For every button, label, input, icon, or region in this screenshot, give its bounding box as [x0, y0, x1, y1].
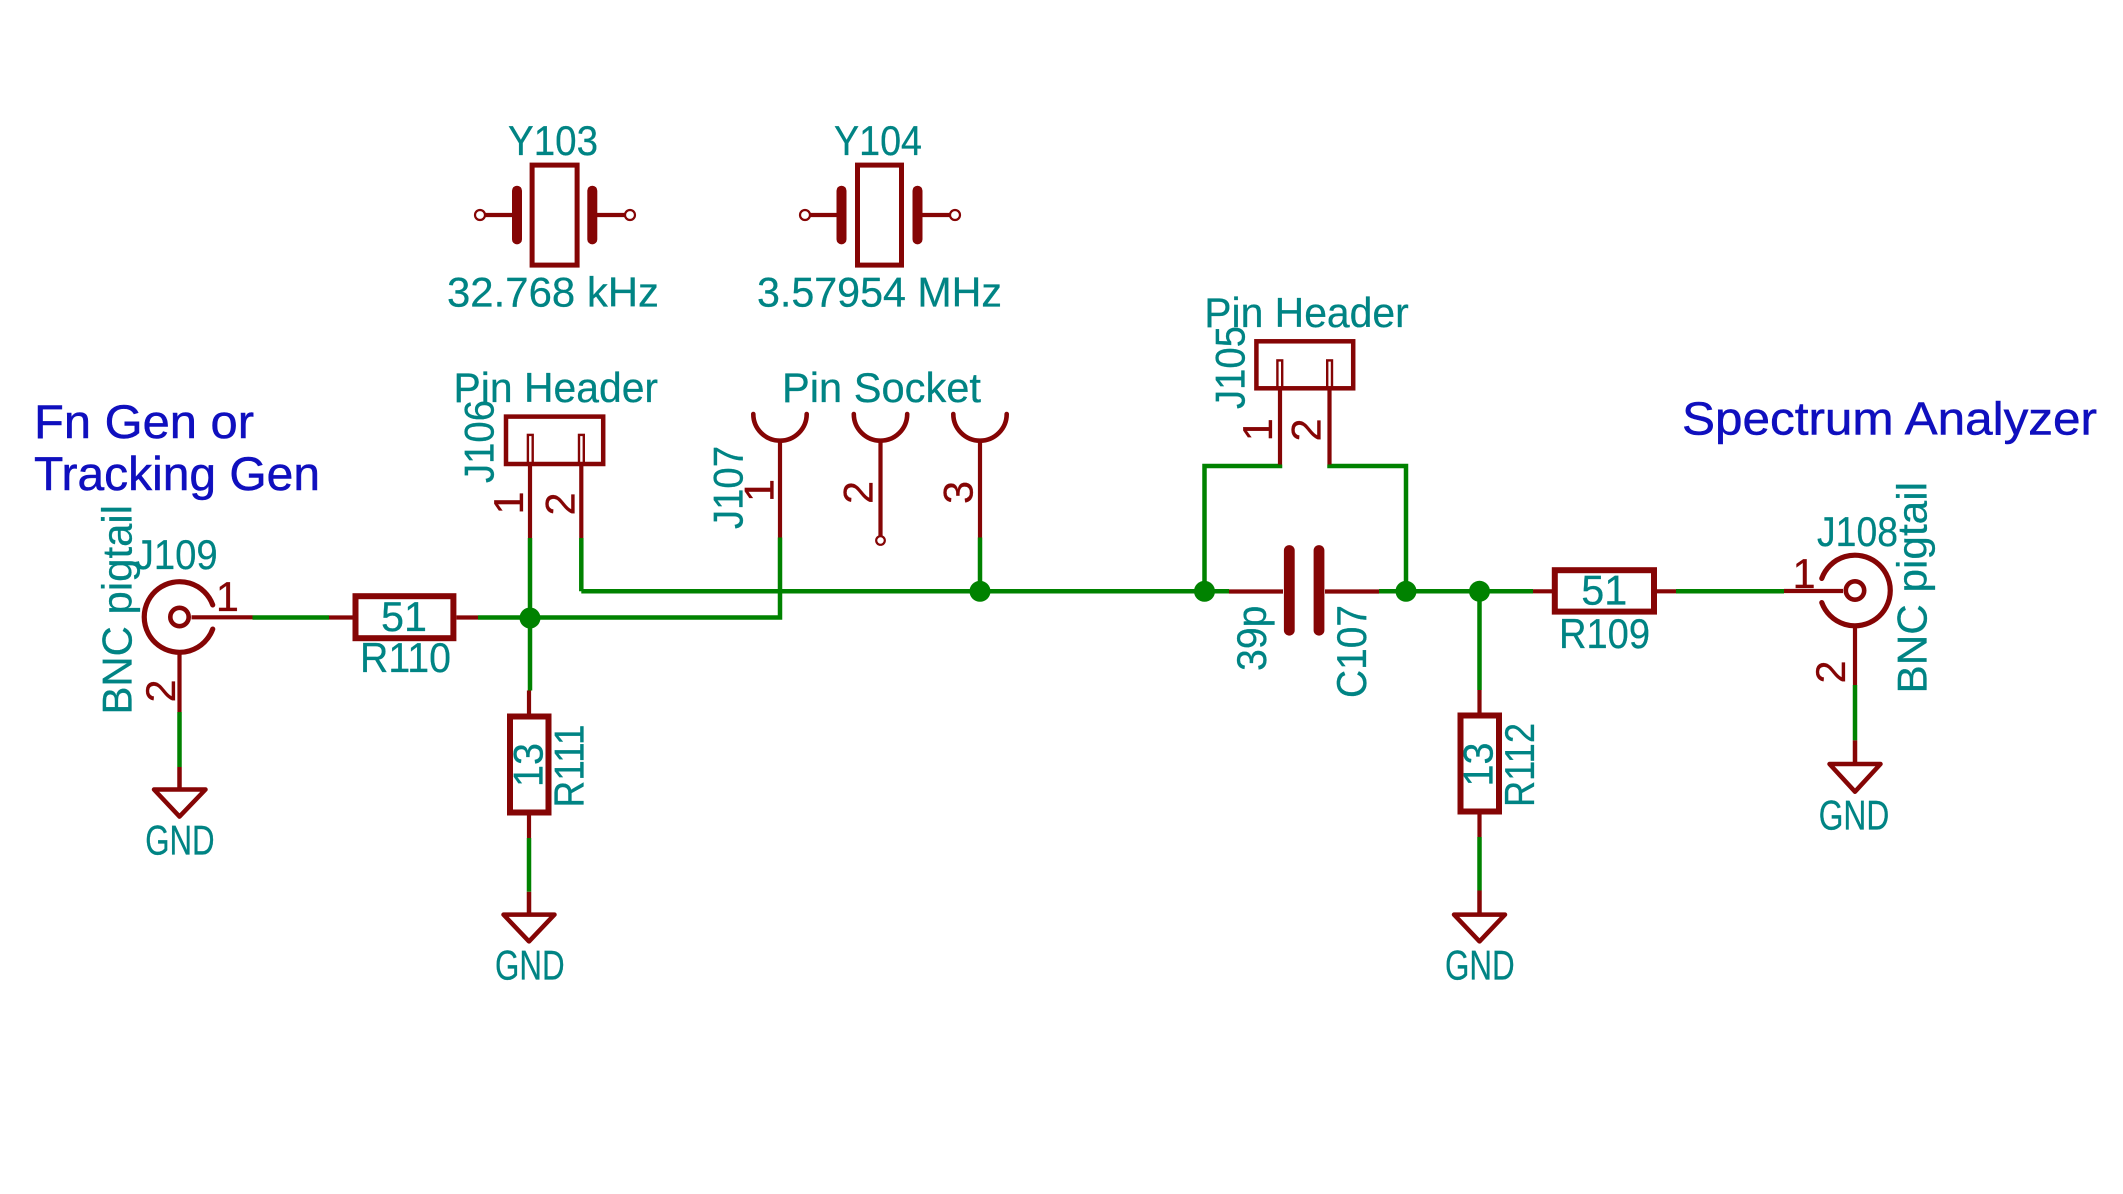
- wire J105.2 to node B: [1330, 465, 1407, 592]
- svg-text:R110: R110: [360, 634, 451, 681]
- connector J106 pin header: [506, 417, 603, 538]
- wire upper net C107 to R109: [1379, 589, 1533, 594]
- wire R112 to GND: [1477, 837, 1482, 891]
- svg-text:39p: 39p: [1228, 606, 1275, 672]
- wire J105.1 to node A: [1205, 465, 1281, 592]
- svg-text:BNC pigtail: BNC pigtail: [94, 505, 141, 715]
- pin R112.2: [1477, 815, 1481, 838]
- junction node C (R112 tap): [1469, 581, 1490, 602]
- wire J106.2 down segment: [579, 538, 584, 591]
- wire node C to R112: [1477, 591, 1482, 690]
- wire R110 to J107.1: [478, 538, 780, 618]
- pin R111.1: [527, 691, 531, 714]
- svg-text:J106: J106: [456, 400, 503, 483]
- svg-text:R112: R112: [1496, 723, 1543, 807]
- ground GND at R112: [1454, 891, 1505, 942]
- connector J107 pin socket: [753, 414, 1006, 545]
- pin R111.2: [527, 816, 531, 839]
- resistor R111 body: [510, 717, 549, 813]
- svg-text:2: 2: [1283, 418, 1330, 441]
- svg-text:GND: GND: [1819, 792, 1890, 839]
- connector J108 BNC pigtail: [1784, 555, 1890, 685]
- ground GND at R111: [504, 892, 555, 942]
- wire R111 to GND: [527, 838, 532, 892]
- svg-text:Y104: Y104: [834, 117, 922, 164]
- svg-text:1: 1: [736, 479, 783, 502]
- svg-text:2: 2: [137, 679, 184, 702]
- pin R110.1: [329, 615, 353, 619]
- svg-text:3: 3: [935, 481, 982, 504]
- junction node A (C107 left): [1194, 581, 1215, 602]
- svg-text:GND: GND: [145, 817, 214, 864]
- svg-text:51: 51: [1581, 567, 1627, 614]
- wire J109.2 to GND: [177, 712, 182, 767]
- capacitor C107: [1229, 551, 1379, 631]
- resistor R112 body: [1461, 716, 1500, 812]
- ground GND at J109: [154, 767, 206, 817]
- junction node B (C107 right): [1396, 581, 1417, 602]
- svg-text:J109: J109: [135, 531, 218, 578]
- connector J109 BNC pigtail: [144, 582, 252, 712]
- svg-text:Fn Gen or: Fn Gen or: [34, 396, 254, 449]
- pin R110.2: [457, 615, 479, 619]
- crystal Y104: [800, 165, 960, 265]
- svg-text:Tracking Gen: Tracking Gen: [34, 448, 320, 501]
- resistor R109 body: [1555, 570, 1654, 611]
- junction node B3 (J107.3): [970, 581, 991, 602]
- svg-text:GND: GND: [495, 942, 565, 989]
- svg-text:1: 1: [1234, 418, 1281, 441]
- wire J107.3 down to node B3: [978, 538, 983, 592]
- wire upper net horizontal left: [581, 589, 1229, 594]
- svg-text:Pin Socket: Pin Socket: [782, 364, 981, 411]
- svg-text:C107: C107: [1328, 605, 1375, 698]
- resistor R110 body: [356, 596, 454, 638]
- connector J105 pin header: [1256, 341, 1353, 464]
- svg-text:2: 2: [1807, 660, 1854, 683]
- ground GND at J108: [1830, 740, 1881, 791]
- svg-text:13: 13: [1455, 743, 1502, 787]
- svg-text:51: 51: [381, 593, 427, 640]
- svg-text:1: 1: [485, 491, 532, 514]
- wire upper net R109 to J108: [1676, 589, 1784, 594]
- svg-text:GND: GND: [1445, 942, 1515, 989]
- svg-text:3.57954 MHz: 3.57954 MHz: [757, 269, 1002, 316]
- pin R109.1: [1533, 589, 1555, 593]
- svg-text:BNC pigtail: BNC pigtail: [1889, 482, 1936, 694]
- svg-text:J108: J108: [1817, 508, 1898, 555]
- svg-text:J105: J105: [1207, 326, 1254, 409]
- wire node D to R111: [528, 618, 533, 691]
- svg-text:2: 2: [835, 481, 882, 504]
- svg-text:R111: R111: [546, 725, 593, 808]
- svg-text:32.768 kHz: 32.768 kHz: [447, 269, 659, 316]
- svg-text:Spectrum Analyzer: Spectrum Analyzer: [1682, 393, 2097, 445]
- svg-text:13: 13: [505, 743, 552, 787]
- wire J106.1 down to node D: [528, 538, 533, 618]
- svg-text:2: 2: [537, 492, 584, 515]
- junction node D: [520, 608, 541, 629]
- svg-text:Y103: Y103: [508, 117, 598, 164]
- wire J108.2 to GND: [1853, 685, 1858, 740]
- crystal Y103: [475, 165, 635, 265]
- svg-text:1: 1: [1792, 550, 1815, 597]
- svg-text:R109: R109: [1559, 610, 1650, 657]
- pin R109.2: [1654, 589, 1676, 593]
- svg-text:1: 1: [216, 573, 239, 620]
- wire J109.1 to R110: [253, 615, 330, 620]
- pin R112.1: [1477, 690, 1481, 713]
